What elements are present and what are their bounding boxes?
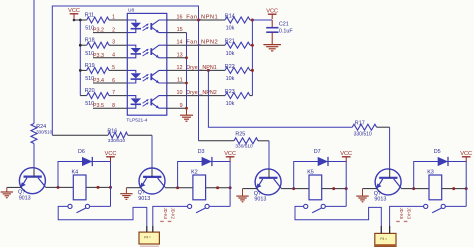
diode LED channel 2 of U8 [127,45,141,58]
svg-text:330/510: 330/510 [235,144,253,150]
junction bus R18 [79,44,82,47]
wire collector row pin 12 [167,69,225,71]
junction VCC riser cell3 [345,187,348,190]
wire Fan_NPN1 drop to R25 [198,20,200,141]
junction Fan_NPN1 riser [197,19,200,22]
wire contact to VCC riser cell1 [90,205,111,207]
svg-text:D3: D3 [198,149,205,155]
junction bus R11 [79,19,82,22]
junction Dryer_NPN1 riser [207,69,210,72]
svg-text:5: 5 [112,65,115,71]
wire R25 to Q3 base [268,141,270,170]
svg-text:10k: 10k [226,51,235,57]
node P3.4 [93,78,104,84]
wire off-page feed to R24 [33,0,35,124]
junction coil pin cell2 [216,186,219,189]
svg-text:R11: R11 [85,12,95,18]
svg-text:K3: K3 [427,169,434,175]
node labels near P2 [396,208,411,223]
wire diode rail cell2 [178,162,231,188]
wire emitter to ground cell2 [126,187,141,189]
junction gnd bus pin9 [185,107,188,110]
wire P3.2 stub [93,32,127,34]
wire emitter ground bus [186,33,188,109]
power VCC cell3 [340,151,352,162]
diode LED channel 1 of U8 [127,20,141,33]
connector P1 [139,226,159,244]
junction bus R19 [79,69,82,72]
resistor R24 [31,124,53,144]
resistor R23 [225,89,253,107]
wire Dryer_NPN1 drop [208,70,352,127]
resistor R14 [225,13,253,31]
svg-text:JD-K3: JD-K3 [406,208,411,220]
power VCC (left LED supply) [68,8,80,19]
wire emitter pin 9 [167,107,187,109]
junction coil pin cell4 [452,187,455,190]
light arrows channel 2 [143,49,149,56]
wire VCC stem to bus [73,19,75,20]
wire diode rail cell4 [414,162,467,189]
wire Fan_NPN1 top loop to R16 [52,6,198,135]
wire bus to VCC [252,19,272,21]
diode LED channel 4 of U8 [127,96,141,109]
svg-text:9013: 9013 [19,196,31,202]
wire K3 contact to connector P2 pin2 [390,206,424,233]
diode D5 [434,149,448,166]
svg-text:Dryer_NPN2: Dryer_NPN2 [186,90,217,96]
junction bus R22 [251,69,254,72]
svg-text:R17: R17 [355,121,365,127]
ground emitter cell3 [236,189,248,202]
wire contact to VCC riser cell3 [325,205,346,207]
transistor phototransistor channel 3 of U8 [151,70,167,83]
node P3.2 [93,28,104,34]
wire P3.3 stub [93,57,127,59]
wire R24 to Q1 base [33,144,35,171]
svg-text:R22: R22 [225,64,235,70]
svg-text:D7: D7 [314,149,321,155]
transistor Q? cell2 9013 [138,168,165,202]
power VCC (pull-up supply) [266,8,278,19]
wire K2 contact to connector P1 pin2 [153,206,188,232]
transistor Q? cell1 9013 [18,168,45,202]
ground emitter cell1 [1,187,13,197]
wire emitter pin 11 [167,82,187,84]
svg-text:10k: 10k [226,26,235,32]
junction VCC riser cell2 [229,186,232,189]
wire right pull-up bus [251,20,253,96]
resistor R22 [225,64,253,82]
svg-text:R14: R14 [225,13,235,19]
node labels near P1 [160,208,175,223]
wire collector row cell2 [165,187,193,189]
junction collector/diode cell1 [57,186,60,189]
svg-text:Fan_NPN1: Fan_NPN1 [186,14,218,20]
capacitor C21 [266,20,293,44]
ground emitter cell2 [120,188,132,200]
transistor Q? cell4 9013 [374,169,401,203]
light arrows channel 1 [143,24,149,31]
svg-text:9013: 9013 [254,197,266,203]
wire contact to VCC riser cell2 [209,205,230,207]
svg-text:1: 1 [112,14,115,20]
relay K2 [191,169,205,199]
svg-text:JD-K5: JD-K5 [399,208,404,220]
junction coil pin cell1 [97,186,100,189]
svg-text:R23: R23 [225,89,235,95]
svg-text:10k: 10k [226,76,235,82]
resistor R20 [80,88,127,107]
wire diode rail cell1 [58,162,111,188]
ground U8 emitters [180,108,193,121]
svg-text:6: 6 [112,78,115,84]
resistor R19 [80,63,127,82]
svg-text:K2: K2 [191,169,198,175]
relay K5 [307,169,322,199]
svg-text:D6: D6 [78,149,85,155]
wire left VCC bus [79,20,81,96]
junction bus R14 [251,19,254,22]
junction gnd bus pin13 [185,56,188,59]
svg-text:8: 8 [112,103,115,109]
svg-text:P4 =: P4 = [380,237,387,241]
junction collector/diode cell4 [412,187,415,190]
ground emitter cell4 [356,189,368,202]
resistor R25 [199,132,270,150]
svg-text:12: 12 [177,65,183,71]
junction coil pin cell3 [332,187,335,190]
wire collector row cell1 [45,186,73,188]
svg-text:VCC: VCC [105,151,117,157]
wire collector row cell3 [281,188,309,190]
power VCC cell2 [224,151,236,162]
op-amp U8 optocoupler TLP521-4 body [126,8,166,124]
svg-text:VCC: VCC [224,151,236,157]
svg-text:VCC: VCC [340,151,352,157]
transistor Q? cell3 9013 [254,169,281,203]
svg-text:10k: 10k [226,101,235,107]
svg-text:VCC: VCC [68,8,80,14]
resistor R16 [52,128,152,143]
svg-text:D5: D5 [434,149,441,155]
wire collector row pin 16 [167,19,225,21]
light arrows channel 4 [143,99,149,106]
transistor phototransistor channel 4 of U8 [151,96,167,109]
svg-text:R25: R25 [235,132,245,138]
wire collector row cell4 [401,188,429,190]
svg-text:VCC: VCC [460,151,472,157]
switch contacts K4 [68,204,90,212]
junction VCC riser cell1 [109,186,112,189]
diode LED channel 3 of U8 [127,70,141,83]
svg-text:9013: 9013 [138,196,150,202]
svg-text:330/510: 330/510 [354,132,372,138]
relay K3 [427,169,442,199]
junction gnd bus pin11 [185,82,188,85]
node P3.3 [93,53,104,59]
wire emitter to ground cell1 [7,186,22,188]
svg-text:C21: C21 [279,22,289,28]
wire R16 to Q2 base [151,135,153,170]
wire emitter pin 15 [167,32,187,34]
relay K4 [72,169,87,199]
svg-text:330/510: 330/510 [36,130,52,135]
svg-text:TLP521-4: TLP521-4 [126,117,147,123]
cropped label under P1 [140,246,159,247]
svg-text:K4: K4 [72,169,79,175]
wire contact to VCC riser cell4 [445,205,466,207]
svg-text:14: 14 [177,40,183,46]
svg-text:4: 4 [112,53,115,59]
svg-text:R19: R19 [85,63,95,69]
svg-text:7: 7 [112,90,115,96]
wire emitter to ground cell3 [243,188,258,190]
svg-text:R21: R21 [225,39,235,45]
wire collector row pin 14 [167,44,225,46]
wire P3.4 stub [93,82,127,84]
svg-text:JD-K2: JD-K2 [170,208,175,220]
transistor phototransistor channel 2 of U8 [151,45,167,58]
svg-text:Dryer_NPN1: Dryer_NPN1 [186,65,217,71]
wire K4 contact to connector P1 pin1 [58,206,147,232]
svg-text:330/510: 330/510 [108,138,126,144]
diode D3 [198,149,212,166]
power VCC cell1 [105,151,117,162]
wire VCC riser to contact cell1 [110,162,112,207]
junction collector/diode cell3 [292,187,295,190]
junction VCC/R11 [73,19,76,22]
svg-text:16: 16 [177,14,183,20]
svg-text:P4 =: P4 = [144,236,151,240]
switch contacts K5 [304,204,326,212]
svg-text:0.1uF: 0.1uF [279,28,293,34]
wire emitter pin 13 [167,57,187,59]
wire emitter to ground cell4 [363,188,378,190]
diode D7 [314,149,328,166]
wire P3.5 stub [93,107,127,109]
wire diode rail cell3 [294,162,347,189]
svg-text:R16: R16 [107,128,117,134]
transistor phototransistor channel 1 of U8 [151,20,167,33]
node P3.5 [93,103,104,109]
svg-text:R20: R20 [85,88,95,94]
svg-text:R18: R18 [85,38,95,44]
wire K5 contact to connector P2 pin1 [295,206,381,233]
ground C21 [263,44,281,51]
svg-text:K5: K5 [307,169,314,175]
junction bus R21 [251,44,254,47]
resistor R11 [80,12,127,31]
svg-text:9013: 9013 [374,197,386,203]
light arrows channel 3 [143,74,149,81]
svg-text:2: 2 [112,27,115,33]
svg-text:VCC: VCC [266,8,278,14]
wire VCC riser to contact cell4 [465,162,467,207]
svg-text:10: 10 [177,90,183,96]
svg-text:JD-K4: JD-K4 [163,208,168,220]
switch contacts K2 [188,204,210,212]
junction VCC riser cell4 [465,187,468,190]
diode D6 [78,149,92,166]
resistor R21 [225,39,253,57]
resistor R17 [352,121,389,138]
wire VCC riser to contact cell2 [229,162,231,207]
connector P2 [375,226,396,247]
junction collector/diode cell2 [176,186,179,189]
wire R17 to Q4 base [389,127,391,170]
power VCC cell4 [460,151,472,162]
wire VCC riser to contact cell3 [345,162,347,207]
wire collector row pin 10 [167,95,225,97]
svg-text:Fan_NPN2: Fan_NPN2 [186,40,218,46]
resistor R18 [80,38,127,57]
svg-text:3: 3 [112,40,115,46]
svg-text:U8: U8 [128,8,134,14]
switch contacts K3 [424,204,446,212]
